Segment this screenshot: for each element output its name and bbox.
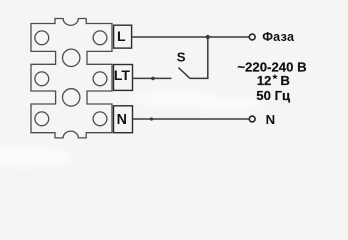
N terminal circle bbox=[249, 116, 255, 122]
terminal hole mid-left bbox=[35, 72, 49, 86]
switch S blade (open) bbox=[178, 68, 190, 79]
watermark smudge bottom-left bbox=[0, 146, 72, 168]
svg-text:N: N bbox=[266, 112, 276, 127]
svg-text:12: 12 bbox=[257, 73, 272, 88]
terminal hole top-left bbox=[35, 31, 49, 45]
wire LT stub bbox=[133, 77, 172, 79]
svg-text:Фаза: Фаза bbox=[262, 30, 295, 44]
svg-text:В: В bbox=[280, 73, 290, 88]
svg-text:L: L bbox=[117, 28, 126, 44]
wire junction down to switch bbox=[190, 37, 208, 78]
superscript star bbox=[272, 74, 278, 80]
svg-text:N: N bbox=[117, 112, 127, 128]
wire N to N terminal bbox=[133, 118, 250, 120]
terminal box LT bbox=[114, 65, 133, 91]
watermark smudge center right bbox=[194, 97, 262, 111]
junction dot on phase wire bbox=[206, 35, 210, 39]
wire L to Faza terminal bbox=[132, 36, 249, 38]
svg-text:S: S bbox=[177, 50, 186, 65]
svg-text:50 Гц: 50 Гц bbox=[256, 88, 290, 103]
terminal hole mid-right bbox=[93, 72, 107, 86]
svg-text:LT: LT bbox=[114, 67, 131, 83]
mounting hole lower-center bbox=[62, 89, 79, 106]
mounting hole upper-center bbox=[62, 49, 79, 66]
watermark smudge center bbox=[133, 90, 217, 106]
contact dot on LT stub bbox=[151, 77, 155, 81]
Faza terminal circle bbox=[249, 34, 255, 40]
terminal hole bottom-left bbox=[35, 112, 49, 126]
terminal hole top-right bbox=[93, 31, 107, 45]
driver module outline bbox=[31, 19, 112, 138]
svg-text:~220-240 В: ~220-240 В bbox=[237, 60, 306, 75]
junction dot on N wire bbox=[150, 117, 153, 120]
terminal box L bbox=[114, 25, 132, 48]
terminal box N bbox=[114, 106, 133, 133]
terminal hole bottom-right bbox=[93, 112, 107, 126]
